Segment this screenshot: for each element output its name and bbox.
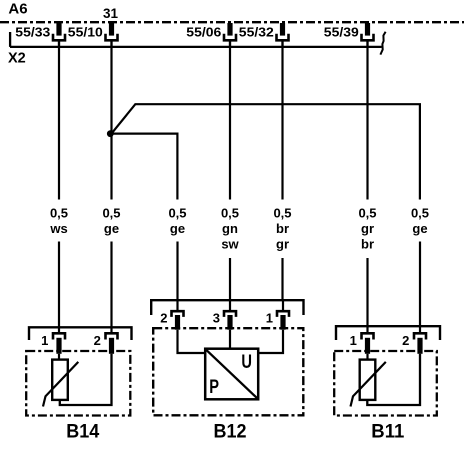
svg-text:A6: A6 xyxy=(8,0,27,17)
svg-text:0,5: 0,5 xyxy=(411,205,429,220)
svg-text:55/06: 55/06 xyxy=(186,24,221,39)
svg-text:0,5: 0,5 xyxy=(221,205,239,220)
svg-text:0,5: 0,5 xyxy=(50,205,68,220)
svg-text:3: 3 xyxy=(213,310,220,325)
svg-text:0,5: 0,5 xyxy=(168,205,186,220)
svg-text:ge: ge xyxy=(170,221,185,236)
svg-text:1: 1 xyxy=(350,333,357,348)
svg-text:ws: ws xyxy=(49,221,67,236)
svg-text:br: br xyxy=(361,237,374,252)
svg-text:gr: gr xyxy=(276,237,289,252)
svg-text:U: U xyxy=(241,350,252,373)
svg-text:2: 2 xyxy=(402,333,409,348)
svg-text:P: P xyxy=(209,375,219,398)
svg-text:ge: ge xyxy=(412,221,427,236)
svg-text:gr: gr xyxy=(361,221,374,236)
svg-text:0,5: 0,5 xyxy=(273,205,291,220)
svg-text:31: 31 xyxy=(103,6,119,21)
svg-text:55/10: 55/10 xyxy=(68,24,103,39)
svg-text:B14: B14 xyxy=(66,420,99,442)
svg-text:ge: ge xyxy=(104,221,119,236)
svg-text:1: 1 xyxy=(266,310,273,325)
svg-text:55/39: 55/39 xyxy=(324,24,359,39)
svg-text:0,5: 0,5 xyxy=(358,205,376,220)
svg-text:2: 2 xyxy=(94,333,101,348)
svg-text:sw: sw xyxy=(221,237,239,252)
svg-text:2: 2 xyxy=(160,310,167,325)
svg-text:0,5: 0,5 xyxy=(102,205,120,220)
svg-text:55/32: 55/32 xyxy=(239,24,274,39)
svg-text:gn: gn xyxy=(222,221,238,236)
svg-text:B12: B12 xyxy=(214,420,247,442)
svg-text:X2: X2 xyxy=(8,50,26,66)
svg-text:br: br xyxy=(276,221,289,236)
svg-text:B11: B11 xyxy=(371,420,404,442)
svg-text:1: 1 xyxy=(41,333,48,348)
svg-text:55/33: 55/33 xyxy=(15,24,50,39)
